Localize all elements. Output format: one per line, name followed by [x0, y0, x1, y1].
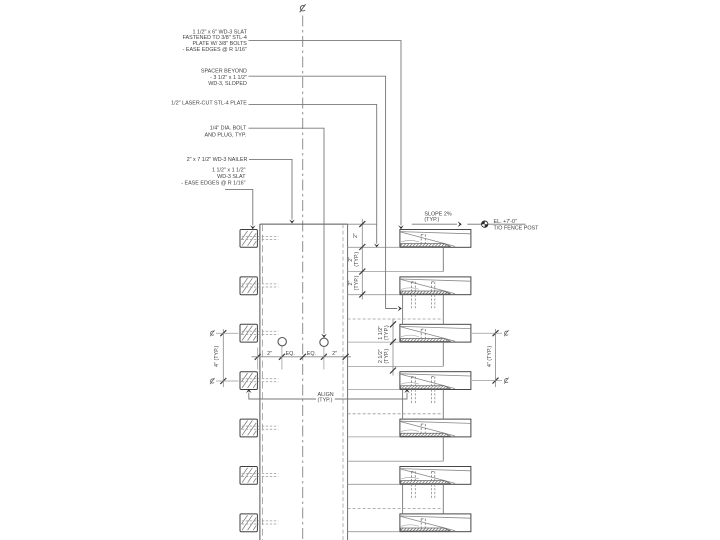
leader note 6 to left slat	[225, 189, 253, 225]
leader note 5 to nailer	[249, 159, 292, 219]
svg-text:- 3 1/2" x 1 1/2": - 3 1/2" x 1 1/2"	[210, 75, 247, 81]
wood slat elevation WD-3 #4 (right, sloped 2%)	[400, 372, 471, 390]
svg-text:WD-3 SLAT: WD-3 SLAT	[217, 174, 246, 180]
svg-text:T/O FENCE POST: T/O FENCE POST	[494, 225, 540, 231]
wood slat elevation WD-3 #3 (right, sloped 2%)	[400, 324, 471, 342]
align leader right	[335, 393, 407, 399]
wood slat section WD-3 #2 (left)	[240, 277, 257, 295]
leader note 4 to bolt head	[249, 128, 325, 334]
bay 5 between slats (spacer/plate beyond)	[348, 437, 444, 461]
datum label underline	[488, 223, 525, 225]
hidden bolt at slat #7	[242, 521, 278, 524]
extension at slat 7 bottom	[348, 531, 400, 533]
svg-text:(TYP.): (TYP.)	[354, 275, 360, 290]
dimension line: 2 / 2 / 2 (typ.)	[359, 219, 365, 300]
hidden bolt at slat #6	[242, 474, 278, 477]
steel plate hidden edge (dashed)	[342, 224, 344, 540]
nailer right edge	[347, 224, 349, 540]
svg-text:EQ.: EQ.	[286, 351, 295, 357]
hidden bolt at slat #2	[242, 284, 278, 287]
svg-text:(TYP.): (TYP.)	[318, 398, 333, 404]
dimension line: 1 1/2 / 2 1/2 (typ.)	[390, 319, 396, 376]
svg-text:SPACER BEYOND: SPACER BEYOND	[201, 68, 247, 74]
dimension 4-inch typ (right) with centerline symbols	[472, 329, 509, 387]
bay 6 between slats (spacer/plate beyond)	[348, 484, 444, 514]
elevation marker symbol	[482, 221, 488, 227]
hidden bolt at slat #3	[242, 331, 278, 334]
leader note 1 to slat elevation	[249, 41, 402, 226]
bolt head circle (left)	[278, 338, 286, 346]
wood slat section WD-3 #6 (left)	[240, 467, 257, 485]
centerline symbol (top)	[300, 4, 306, 12]
hidden bolt at slat #4	[242, 379, 278, 382]
bay 4 between slats (spacer/plate beyond)	[348, 390, 444, 420]
svg-text:1/4" DIA. BOLT: 1/4" DIA. BOLT	[210, 126, 247, 132]
svg-text:2" x 7 1/2" WD-3 NAILER: 2" x 7 1/2" WD-3 NAILER	[187, 157, 248, 163]
svg-text:(TYP.): (TYP.)	[424, 217, 439, 223]
datum line at top of band (extension)	[348, 223, 377, 225]
dimension line: 2 / EQ / EQ / 2	[252, 346, 352, 369]
leader note 3 to plate	[249, 104, 377, 243]
svg-text:- EASE EDGES @ R 1/16": - EASE EDGES @ R 1/16"	[181, 181, 245, 187]
nailer left edge	[259, 224, 261, 540]
nailer top edge	[260, 223, 348, 225]
wood slat elevation WD-3 #2 (right, sloped 2%)	[400, 277, 471, 295]
svg-text:2": 2"	[353, 233, 359, 238]
align leader left	[249, 393, 316, 399]
svg-text:(TYP.): (TYP.)	[354, 252, 360, 267]
bay 1 between slats (spacer/plate beyond)	[348, 247, 444, 271]
svg-text:2": 2"	[267, 351, 272, 357]
centerline of fence post (dash-dot)	[302, 16, 304, 540]
hidden bolt at slat #1	[242, 237, 278, 240]
svg-text:(TYP.): (TYP.)	[384, 349, 390, 364]
svg-text:(TYP.): (TYP.)	[384, 325, 390, 340]
wood slat section WD-3 #7 (left)	[240, 514, 257, 532]
svg-text:4" (TYP.): 4" (TYP.)	[214, 345, 220, 366]
bay 2 between slats (spacer/plate beyond)	[348, 295, 444, 325]
wood slat section WD-3 #1 (left)	[240, 230, 257, 248]
slope direction arrow	[412, 223, 457, 225]
hidden bolt at slat #5	[242, 426, 278, 429]
bolt head circle (right)	[320, 338, 328, 346]
wood slat section WD-3 #5 (left)	[240, 419, 257, 437]
svg-text:AND PLUG, TYP.: AND PLUG, TYP.	[205, 133, 247, 139]
wood slat elevation WD-3 #6 (right, sloped 2%)	[400, 467, 471, 485]
wood slat section WD-3 #3 (left)	[240, 324, 257, 342]
svg-text:EL. +7'-0": EL. +7'-0"	[494, 219, 518, 225]
svg-text:4" (TYP.): 4" (TYP.)	[487, 346, 493, 367]
wood slat elevation WD-3 #7 (right, sloped 2%)	[400, 514, 471, 532]
dimension 4-inch typ (left) with centerline symbols	[210, 329, 238, 387]
wood slat elevation WD-3 #5 (right, sloped 2%)	[400, 419, 471, 437]
wood slat section WD-3 #4 (left)	[240, 372, 257, 390]
datum connector line	[467, 223, 481, 225]
svg-text:2": 2"	[332, 351, 337, 357]
wood slat elevation WD-3 #1 (right, sloped 2%)	[400, 230, 471, 248]
svg-text:1/2" LASER-CUT STL-4 PLATE: 1/2" LASER-CUT STL-4 PLATE	[171, 100, 247, 106]
nailer left inner hidden line	[261, 224, 263, 540]
leader note 2 to spacer	[249, 76, 398, 308]
svg-text:1 1/2" x 1 1/2": 1 1/2" x 1 1/2"	[212, 168, 246, 174]
bay 7 dashed spacer line	[348, 538, 444, 540]
bay 3 between slats (spacer/plate beyond)	[348, 342, 444, 366]
svg-text:EQ.: EQ.	[307, 351, 316, 357]
svg-text:WD-3, SLOPED: WD-3, SLOPED	[208, 81, 247, 87]
svg-text:- EASE EDGES @ R 1/16": - EASE EDGES @ R 1/16"	[183, 47, 247, 53]
